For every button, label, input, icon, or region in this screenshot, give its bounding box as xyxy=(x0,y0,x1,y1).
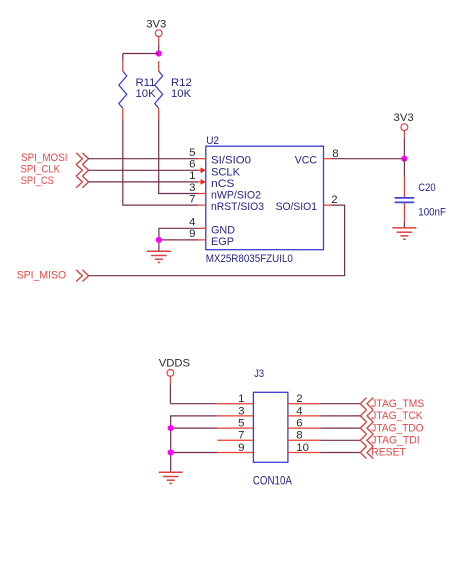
port SPI_CS xyxy=(21,175,89,188)
J3 pin 1 xyxy=(217,393,253,405)
label MX25R8035FZUIL0 xyxy=(206,253,293,265)
svg-text:3: 3 xyxy=(238,405,244,417)
svg-text:SO/SIO1: SO/SIO1 xyxy=(276,201,317,213)
svg-text:10K: 10K xyxy=(171,88,192,100)
ground symbol C20 xyxy=(392,228,416,239)
junction VCC C20 xyxy=(401,156,407,162)
svg-text:EGP: EGP xyxy=(211,236,234,248)
port SPI_MOSI xyxy=(21,152,89,165)
svg-text:SPI_MOSI: SPI_MOSI xyxy=(21,152,68,164)
junction 3V3 rail xyxy=(156,50,162,56)
svg-text:1: 1 xyxy=(189,170,195,182)
wire J3 pin 2 to JTAG_TMS xyxy=(321,403,361,405)
wire SPI_CLK to U2 pin 6 xyxy=(89,169,198,171)
svg-text:4: 4 xyxy=(296,405,302,417)
junction J3 pin9 gnd xyxy=(168,449,174,455)
connector J3 body xyxy=(253,392,288,462)
svg-text:CON10A: CON10A xyxy=(253,474,292,488)
U2 pin 7 nRST/SIO3 xyxy=(189,193,264,213)
svg-text:nRST/SIO3: nRST/SIO3 xyxy=(211,201,264,213)
wire VCC junction to C20 xyxy=(403,159,405,177)
J3 pin 8 xyxy=(288,430,321,442)
svg-text:9: 9 xyxy=(189,228,195,240)
ground symbol U2 xyxy=(147,251,171,262)
label C20 100nF xyxy=(418,182,446,218)
U2 pin 4 GND xyxy=(189,217,235,237)
power symbol 3V3 (left) xyxy=(146,19,166,54)
svg-text:2: 2 xyxy=(296,393,302,405)
svg-text:J3: J3 xyxy=(254,368,264,380)
svg-text:RESET: RESET xyxy=(371,447,406,459)
svg-text:3V3: 3V3 xyxy=(146,19,166,31)
svg-text:nWP/SIO2: nWP/SIO2 xyxy=(211,190,261,202)
svg-text:SPI_CS: SPI_CS xyxy=(21,175,54,187)
svg-text:5: 5 xyxy=(238,418,244,430)
svg-text:JTAG_TDI: JTAG_TDI xyxy=(371,435,419,447)
svg-text:C20: C20 xyxy=(418,182,435,194)
svg-text:JTAG_TCK: JTAG_TCK xyxy=(371,410,423,422)
svg-text:3: 3 xyxy=(189,182,195,194)
svg-text:MX25R8035FZUIL0: MX25R8035FZUIL0 xyxy=(206,253,293,265)
wire J3 pin3 to ground net xyxy=(171,416,218,472)
wire VDDS to J3 pin 1 xyxy=(170,403,217,405)
svg-text:10K: 10K xyxy=(136,88,157,100)
wire R12 to U2 pin 3 xyxy=(159,118,198,193)
wire J3 pin5 to ground net xyxy=(171,427,218,429)
label J3 xyxy=(254,368,264,380)
U2 pin 2 SO/SIO1 xyxy=(276,194,338,213)
svg-text:6: 6 xyxy=(296,418,302,430)
label R11 10K xyxy=(136,77,157,100)
J3 pin 2 xyxy=(288,393,321,405)
svg-text:VCC: VCC xyxy=(295,155,317,167)
U2 pin 9 EGP xyxy=(189,228,234,248)
wire U2 pin9 EGP to ground net xyxy=(159,240,198,251)
wire U2 pin4 GND to ground net xyxy=(159,228,198,240)
svg-text:1: 1 xyxy=(238,393,244,405)
U2 pin 5 SI/SIO0 xyxy=(189,147,251,167)
label CON10A xyxy=(253,474,292,488)
label R12 10K xyxy=(171,77,192,100)
svg-text:JTAG_TMS: JTAG_TMS xyxy=(371,398,424,410)
svg-text:2: 2 xyxy=(331,194,337,206)
svg-text:100nF: 100nF xyxy=(418,206,446,218)
svg-text:JTAG_TDO: JTAG_TDO xyxy=(371,422,423,434)
port JTAG_TDO xyxy=(360,422,423,434)
svg-text:SPI_MISO: SPI_MISO xyxy=(17,269,67,281)
resistor R12 xyxy=(155,61,163,118)
port JTAG_TCK xyxy=(360,410,423,422)
wire J3 pin9 to ground net xyxy=(171,452,218,454)
wire U2 VCC to 3V3 xyxy=(332,158,405,160)
svg-text:5: 5 xyxy=(189,147,195,159)
resistor R11 xyxy=(119,61,127,118)
svg-text:6: 6 xyxy=(189,159,195,171)
wire C20 to ground xyxy=(403,222,405,227)
svg-text:9: 9 xyxy=(238,442,244,454)
wire J3 pin 8 to JTAG_TDI xyxy=(321,439,361,441)
svg-text:R11: R11 xyxy=(136,77,156,89)
port JTAG_TDI xyxy=(360,434,419,446)
port SPI_MISO xyxy=(17,269,89,281)
IC U2 body xyxy=(206,146,324,250)
wire SPI_MOSI to U2 pin 5 xyxy=(89,158,198,160)
power symbol 3V3 (right) xyxy=(394,112,414,159)
power symbol VDDS xyxy=(159,357,191,403)
svg-text:R12: R12 xyxy=(171,77,192,89)
port RESET xyxy=(360,446,406,458)
label U2 xyxy=(206,135,219,147)
wire J3 pin 10 to RESET xyxy=(321,452,361,454)
svg-text:SI/SIO0: SI/SIO0 xyxy=(211,155,251,167)
svg-text:7: 7 xyxy=(189,193,195,205)
svg-text:nCS: nCS xyxy=(211,178,235,190)
J3 pin 6 xyxy=(288,418,321,430)
svg-text:VDDS: VDDS xyxy=(159,357,191,369)
svg-text:GND: GND xyxy=(211,224,235,236)
wire J3 pin 6 to JTAG_TDO xyxy=(321,427,361,429)
U2 pin 1 nCS xyxy=(189,170,234,190)
svg-text:8: 8 xyxy=(332,148,338,160)
junction J3 pin5 gnd xyxy=(168,425,174,431)
wire U2 SO/SIO1 to SPI_MISO xyxy=(89,205,345,276)
J3 pin 5 xyxy=(217,418,253,430)
svg-text:7: 7 xyxy=(238,430,244,442)
svg-text:10: 10 xyxy=(296,442,309,454)
capacitor C20 xyxy=(395,177,415,223)
wire R11 to U2 pin 7 xyxy=(123,118,198,205)
svg-text:U2: U2 xyxy=(206,135,219,147)
J3 pin 7 xyxy=(217,430,253,442)
svg-text:SPI_CLK: SPI_CLK xyxy=(21,164,61,176)
J3 pin 3 xyxy=(217,405,253,417)
junction GND net U2 xyxy=(156,237,162,243)
svg-text:4: 4 xyxy=(189,217,195,229)
port JTAG_TMS xyxy=(360,398,424,410)
wire SPI_CS to U2 pin 1 xyxy=(89,181,198,183)
svg-text:SCLK: SCLK xyxy=(211,166,241,178)
J3 pin 4 xyxy=(288,405,321,417)
U2 pin 6 SCLK xyxy=(189,159,240,179)
ground symbol J3 xyxy=(159,472,183,483)
U2 pin 8 VCC xyxy=(295,148,339,167)
port SPI_CLK xyxy=(21,164,89,177)
J3 pin 9 xyxy=(217,442,253,454)
wire J3 pin 4 to JTAG_TCK xyxy=(321,415,361,417)
svg-text:3V3: 3V3 xyxy=(394,112,414,124)
wire 3V3 rail to R11 xyxy=(123,54,159,62)
J3 pin 10 xyxy=(288,442,321,454)
U2 pin 3 nWP/SIO2 xyxy=(189,182,261,202)
svg-text:8: 8 xyxy=(296,430,302,442)
